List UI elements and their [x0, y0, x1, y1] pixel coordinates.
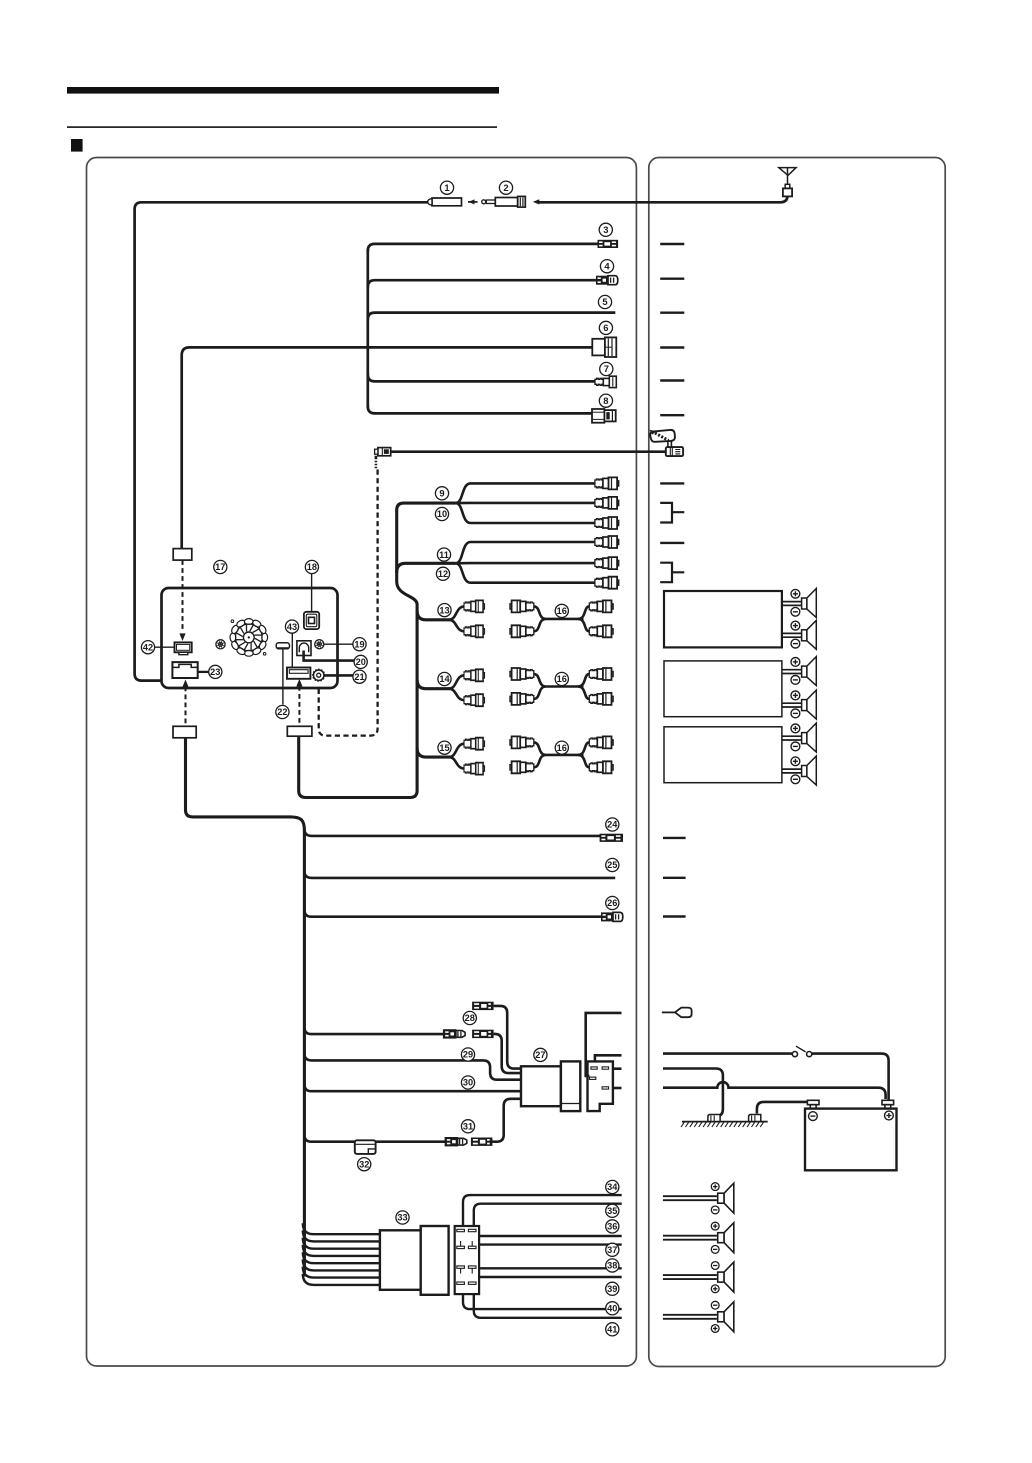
wire lead 40 — [463, 1294, 622, 1309]
label 8 — [599, 394, 612, 407]
svg-text:39: 39 — [607, 1284, 617, 1294]
label 27 — [534, 1048, 547, 1061]
RCA jacks of lead 13 — [464, 600, 484, 637]
wire lead 36 — [479, 1235, 622, 1237]
hands-free microphone — [649, 430, 683, 456]
label 35 — [606, 1204, 619, 1217]
port 43 (USB) — [287, 668, 310, 679]
wire lead 9 split — [456, 483, 595, 523]
amplifier box 1 — [664, 591, 782, 647]
svg-text:7: 7 — [604, 363, 609, 374]
vehicle lead stub 8 — [660, 414, 684, 416]
dashed link B — [185, 687, 187, 726]
speaker stub lead 9 — [660, 482, 684, 484]
svg-text:37: 37 — [607, 1245, 617, 1255]
RCA connector row 1 (leads 9-12) — [595, 477, 619, 489]
arrow into plug 2 — [533, 199, 540, 204]
svg-text:24: 24 — [607, 820, 618, 830]
spade male 31 — [445, 1138, 467, 1146]
RCA extension cable 16-1 — [534, 606, 590, 631]
port 22 (connector slot) — [276, 643, 289, 649]
wire ground lead 1 — [663, 1069, 723, 1117]
label 37 — [606, 1243, 619, 1256]
fuse symbol — [675, 1008, 692, 1018]
amp speaker 5 polarity — [791, 724, 800, 733]
svg-text:18: 18 — [307, 562, 317, 572]
svg-text:25: 25 — [607, 860, 617, 870]
label 29 — [461, 1048, 474, 1061]
feed wire from head unit to leads 3-8 — [182, 347, 593, 549]
svg-text:22: 22 — [277, 707, 287, 717]
spade female 28 — [472, 1030, 494, 1038]
label 21 — [353, 670, 366, 683]
battery box — [805, 1109, 897, 1171]
door speaker 3 — [663, 1262, 734, 1292]
arrowhead up at 23 — [182, 680, 188, 688]
branch wire lead 14 — [417, 680, 450, 689]
wire lead 25 — [304, 871, 615, 878]
svg-text:19: 19 — [354, 639, 364, 649]
label 36 — [606, 1220, 619, 1233]
wire lead 30 — [304, 1084, 521, 1091]
wire lead 31 — [304, 1135, 445, 1142]
label 40 — [606, 1302, 619, 1315]
amplifier box 3 — [664, 727, 782, 783]
speaker stub lead 11 — [660, 542, 684, 544]
connector 23 (main socket) — [172, 662, 197, 678]
amplifier box 2 — [664, 661, 782, 717]
fan screw a — [231, 620, 234, 623]
harness box B — [173, 726, 196, 738]
svg-text:10: 10 — [437, 509, 447, 519]
label 43 — [285, 620, 298, 633]
branch wire lead 13 — [417, 611, 450, 620]
label line 42 — [155, 646, 175, 648]
title bar — [67, 87, 499, 94]
connector 6 — [592, 337, 616, 357]
RCA connector row 6 (leads 9-12) — [595, 577, 619, 589]
dashed link C — [298, 686, 300, 725]
wire lead 34 — [463, 1195, 622, 1226]
svg-text:33: 33 — [397, 1213, 407, 1223]
svg-text:17: 17 — [215, 562, 225, 572]
RCA jacks of lead 15 — [464, 738, 484, 775]
svg-text:43: 43 — [287, 622, 297, 632]
RCA connector row 5 (leads 9-12) — [595, 557, 619, 569]
wire switch to battery plus — [812, 1054, 889, 1100]
label line 23 — [198, 671, 209, 673]
branch wire lead 15 — [417, 748, 450, 757]
label 2 — [499, 181, 512, 194]
branch wire leads 11-12 — [397, 563, 456, 573]
label 24 — [606, 818, 619, 831]
label 16b — [555, 672, 568, 685]
port 18 (optical) — [304, 612, 319, 629]
wire from vehicle antenna — [538, 194, 788, 202]
label 39 — [606, 1282, 619, 1295]
label 3 — [599, 223, 612, 236]
3.5mm right-angle plug — [375, 448, 391, 469]
svg-text:23: 23 — [210, 667, 220, 677]
label 42 — [141, 641, 154, 654]
label 30 — [461, 1076, 474, 1089]
svg-text:32: 32 — [359, 1159, 369, 1169]
connector 7 — [595, 376, 616, 387]
svg-text:27: 27 — [535, 1050, 545, 1060]
door speaker 3 polarity — [711, 1262, 719, 1270]
connector 4 — [596, 276, 618, 285]
RCA extension cable 16-2 — [534, 674, 590, 699]
wire lead 38 — [479, 1267, 622, 1269]
label 38 — [606, 1259, 619, 1272]
dashed link A — [182, 560, 184, 631]
fuse lead — [662, 1011, 676, 1013]
wire microphone cable — [391, 450, 667, 453]
power plug 27 body — [521, 1061, 580, 1111]
wire trunk from box B — [186, 738, 305, 1277]
door speaker 2 polarity — [711, 1222, 719, 1230]
Y-split lead 15 — [449, 744, 467, 769]
wire from female 28b — [494, 1006, 521, 1069]
Y-split lead 14 — [449, 675, 467, 700]
wire ignition switch line — [663, 1052, 792, 1055]
label 41 — [606, 1323, 619, 1336]
wire lead 24 — [304, 829, 600, 836]
section square bullet — [71, 139, 83, 152]
door speaker 1 — [663, 1183, 734, 1213]
label line 22 — [282, 650, 284, 705]
amp speaker 3 — [782, 657, 816, 686]
svg-text:4: 4 — [604, 260, 610, 271]
wire antenna lead (to plug 1) — [135, 202, 431, 680]
label 34 — [606, 1180, 619, 1193]
svg-text:21: 21 — [354, 672, 364, 682]
connector 26 — [601, 912, 623, 921]
label 31 — [461, 1120, 474, 1133]
door speaker 4 — [663, 1302, 734, 1332]
wire lead 35 — [474, 1204, 622, 1226]
svg-text:9: 9 — [439, 488, 444, 499]
svg-text:40: 40 — [607, 1304, 617, 1314]
connector 42 (socket) — [175, 642, 192, 654]
svg-text:15: 15 — [439, 743, 449, 753]
label 20 — [354, 655, 367, 668]
amp speaker 2 polarity — [791, 621, 800, 630]
wire battery lead — [663, 1082, 886, 1099]
wire lead 39 — [479, 1276, 622, 1278]
connector 24 — [600, 834, 623, 842]
amp speaker 1 — [782, 589, 816, 618]
cooling fan — [230, 619, 268, 657]
svg-text:29: 29 — [463, 1050, 473, 1060]
vehicle lead stub 5 — [660, 312, 684, 314]
RCA extension cable 16-3 — [534, 742, 590, 767]
door speaker 2 — [663, 1223, 734, 1253]
vehicle lead stub 6 — [660, 346, 684, 348]
right panel frame — [649, 158, 945, 1367]
label 12 — [436, 567, 449, 580]
wire accessory feed at 27 — [595, 1055, 622, 1061]
svg-text:20: 20 — [356, 657, 366, 667]
svg-text:34: 34 — [607, 1182, 618, 1192]
wire lead 3 — [368, 244, 598, 252]
spade female 28b (floating) — [472, 1002, 494, 1010]
expansion box stub A — [173, 549, 192, 561]
svg-text:16: 16 — [557, 674, 567, 684]
connector 8 — [592, 409, 616, 423]
label 10 — [435, 507, 448, 520]
svg-text:6: 6 — [603, 322, 608, 333]
wire lead 7 — [368, 374, 596, 382]
jack 21 (AV input) — [313, 669, 325, 681]
svg-text:28: 28 — [465, 1013, 475, 1023]
wire lead 8 — [368, 406, 593, 414]
label 6 — [599, 321, 612, 334]
label 19 — [353, 638, 366, 651]
svg-text:12: 12 — [438, 569, 448, 579]
svg-text:1: 1 — [444, 182, 449, 193]
label 28 — [463, 1011, 476, 1024]
wire lead 4 — [368, 280, 596, 288]
antenna plug 1 (JASO female) — [428, 198, 462, 206]
wire lead 11 split — [456, 542, 595, 583]
amp speaker 5 — [782, 723, 816, 752]
svg-text:38: 38 — [607, 1261, 617, 1271]
label 33 — [396, 1211, 409, 1224]
spade male 28 — [443, 1030, 465, 1038]
amp speaker 1 polarity — [791, 589, 800, 598]
vehicle lead stub 7 — [660, 379, 684, 381]
svg-text:2: 2 — [503, 182, 508, 193]
wire lead 5 — [368, 313, 616, 321]
RCA connector row 3 (leads 9-12) — [595, 517, 619, 529]
svg-text:11: 11 — [439, 550, 449, 560]
vehicle stub for lead 24 — [663, 837, 686, 839]
Y-split lead 13 — [449, 606, 467, 631]
label 16a — [555, 604, 568, 617]
harness box C — [287, 726, 312, 736]
antenna jack 17 — [216, 640, 225, 649]
port 20 (S-video) — [297, 641, 311, 656]
amp speaker 3 polarity — [791, 658, 800, 667]
ground lug 1 — [708, 1115, 720, 1122]
arrow between 1 and 2 — [468, 199, 478, 204]
speaker pair bracket 12 — [660, 563, 684, 583]
RCA jacks of lead 14 — [464, 669, 484, 706]
svg-text:42: 42 — [143, 642, 153, 652]
chassis ground bar — [681, 1122, 768, 1127]
svg-text:16: 16 — [557, 606, 567, 616]
label 26 — [606, 896, 619, 909]
spade female 31 — [471, 1138, 493, 1146]
amp speaker 4 — [782, 690, 816, 719]
label line 43 — [291, 634, 293, 668]
connector 3 — [598, 240, 619, 248]
label 5 — [598, 295, 611, 308]
wire battery feed at 27 — [586, 1013, 622, 1076]
battery positive post — [882, 1100, 894, 1108]
svg-text:36: 36 — [607, 1222, 617, 1232]
screw 19 — [315, 640, 354, 649]
fuse holder 32 — [355, 1140, 376, 1154]
speaker pair bracket 10 — [660, 503, 684, 523]
arrowhead down at 42 — [179, 633, 185, 641]
amp speaker 6 — [782, 756, 816, 785]
wire stub 20 — [304, 651, 355, 661]
svg-text:35: 35 — [607, 1206, 617, 1216]
svg-text:3: 3 — [603, 224, 608, 235]
svg-text:8: 8 — [603, 395, 608, 406]
wire lead 37 — [479, 1243, 622, 1245]
svg-text:26: 26 — [607, 898, 617, 908]
svg-text:31: 31 — [463, 1122, 473, 1132]
wire lead 29 — [304, 1053, 521, 1079]
harness fan wires to 33 — [303, 1223, 380, 1285]
vehicle connector (mate of 27) — [588, 1061, 613, 1111]
ignition switch — [792, 1046, 812, 1057]
label 1 — [440, 181, 453, 194]
wire from female 28 — [494, 1034, 521, 1073]
battery negative post — [807, 1100, 819, 1108]
label 25 — [606, 858, 619, 871]
wire stub 21 — [324, 674, 354, 677]
vehicle lead stub 3 — [660, 243, 684, 245]
label 18 — [305, 560, 318, 573]
door speaker 1 polarity — [711, 1183, 719, 1191]
vehicle lead stub 4 — [660, 278, 684, 280]
branch stem for leads 3-5,7-8 — [366, 249, 369, 408]
ground lug 2 — [749, 1115, 761, 1122]
label line 18 — [311, 574, 313, 612]
label 22 — [276, 705, 289, 718]
head unit rear panel box — [162, 588, 338, 688]
label 15 — [438, 741, 451, 754]
label 4 — [600, 260, 613, 273]
svg-text:30: 30 — [463, 1078, 473, 1088]
svg-text:13: 13 — [439, 605, 449, 615]
harness plug 33 — [380, 1226, 449, 1295]
vehicle antenna symbol — [779, 168, 796, 197]
ground lug 2 and wire — [757, 1102, 808, 1114]
label 17 — [214, 560, 227, 573]
battery plus mark — [885, 1111, 894, 1120]
dashed link mic-plug to jack 21 — [319, 470, 378, 736]
amp speaker 2 — [782, 620, 816, 649]
label 16c — [555, 741, 568, 754]
wire lead 28 — [304, 1027, 443, 1034]
svg-text:41: 41 — [607, 1325, 617, 1335]
label 9 — [435, 487, 448, 500]
battery minus mark — [809, 1112, 818, 1121]
label 23 — [209, 665, 222, 678]
fan screw b — [263, 653, 266, 656]
wire ground at 27 upper — [613, 1067, 622, 1070]
label 11 — [437, 548, 450, 561]
wire lead 26 — [304, 910, 601, 917]
wire from female 31 — [491, 1099, 521, 1142]
label 32 — [358, 1158, 371, 1171]
svg-text:14: 14 — [439, 674, 450, 684]
amp speaker 6 polarity — [791, 757, 800, 766]
label 14 — [438, 672, 451, 685]
antenna plug 2 (adapter) — [482, 196, 526, 207]
wire ground at 27 lower — [613, 1087, 622, 1090]
vehicle stub for lead 25 — [663, 877, 686, 879]
subtitle rule — [67, 126, 497, 128]
arrowhead up at 43 — [296, 679, 302, 687]
vehicle harness socket (mate of 33) — [455, 1226, 479, 1294]
vehicle stub for lead 26 — [663, 915, 686, 917]
left panel frame — [87, 158, 637, 1367]
wire lead 41 — [474, 1294, 622, 1318]
svg-text:5: 5 — [602, 296, 607, 307]
label 13 — [438, 604, 451, 617]
wire AV bus from port 43 up to RCA leads — [299, 503, 456, 797]
svg-text:16: 16 — [557, 743, 567, 753]
RCA connector row 2 (leads 9-12) — [595, 497, 619, 509]
RCA connector row 4 (leads 9-12) — [595, 536, 619, 548]
label 7 — [600, 362, 613, 375]
door speaker 4 polarity — [711, 1301, 719, 1309]
amp speaker 4 polarity — [791, 691, 800, 700]
arrowhead up at jack 21 — [316, 680, 322, 688]
